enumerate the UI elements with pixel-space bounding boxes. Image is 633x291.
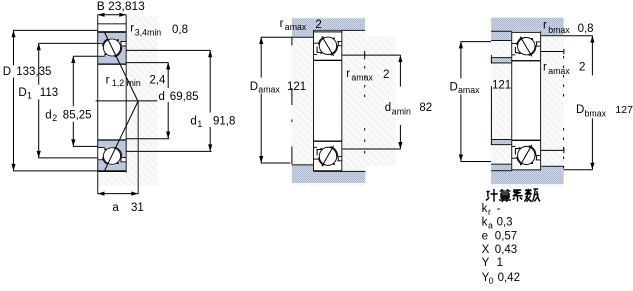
svg-text:B 23,813: B 23,813	[97, 0, 145, 13]
title 计算系数 (drawn as glyph strokes)	[486, 189, 540, 202]
svg-text:1: 1	[497, 257, 503, 269]
dimension d vertical with arrows	[167, 63, 169, 88]
housing shoulder tab bottom-right	[541, 166, 564, 171]
Damax extension top	[461, 41, 492, 43]
svg-text:113: 113	[40, 87, 58, 99]
ra level line bottom with tick	[541, 149, 564, 151]
svg-text:a: a	[488, 221, 493, 231]
dimension damin	[399, 55, 401, 86]
outer ring OD thick line bottom	[98, 170, 126, 172]
svg-text:2: 2	[315, 19, 321, 31]
svg-text:0,57: 0,57	[495, 230, 517, 242]
housing shoulder tab top-left	[491, 31, 512, 40]
bearing interior white	[511, 31, 541, 170]
housing bore edge line bottom-left	[491, 169, 512, 172]
svg-text:d: d	[190, 116, 196, 128]
d2 extension line top	[73, 55, 97, 57]
bearing bottom half-section	[512, 140, 540, 171]
housing band top	[292, 18, 365, 30]
svg-text:amax: amax	[458, 85, 480, 95]
dimension a line	[98, 193, 138, 195]
housing seat edge line bottom	[313, 170, 365, 173]
dimension Damax	[460, 42, 462, 79]
svg-text:D: D	[576, 104, 584, 116]
svg-text:Y: Y	[482, 257, 490, 269]
D1 extension line top	[38, 42, 97, 44]
dimension Damax	[260, 37, 262, 77]
svg-text:D: D	[3, 66, 11, 78]
housing shoulder top edge bottom	[292, 163, 314, 166]
svg-text:d: d	[159, 91, 165, 103]
spacer strip top-left	[491, 58, 511, 63]
bearing bottom half-section	[313, 141, 341, 172]
bearing interior white	[313, 31, 342, 171]
d extension line bottom	[126, 138, 169, 140]
Damax extension top	[261, 36, 292, 38]
d1 extension line top	[126, 49, 210, 51]
Damax extension bottom	[461, 161, 492, 163]
a extension line right	[137, 101, 140, 194]
svg-text:r: r	[280, 18, 284, 30]
dimension D1	[38, 43, 40, 84]
dimension d2	[72, 56, 74, 106]
dimension D: vertical line with arrows	[13, 30, 15, 65]
svg-text:amin: amin	[392, 107, 411, 117]
d extension line top	[126, 62, 168, 64]
svg-text:r: r	[543, 61, 547, 73]
D extension line bottom	[13, 170, 97, 172]
svg-text:r: r	[488, 207, 491, 217]
svg-text:31: 31	[131, 202, 144, 214]
bearing right face line	[340, 31, 343, 172]
housing shoulder tab bottom-left	[292, 165, 314, 172]
Damax extension bottom	[261, 162, 290, 164]
bearing left face line	[96, 14, 99, 194]
left shoulder bottom edge	[491, 39, 512, 42]
bearing interior white	[97, 15, 126, 172]
housing band bottom	[491, 171, 563, 184]
d2 extension line bottom	[73, 145, 97, 147]
svg-text:2: 2	[52, 113, 57, 123]
svg-text:85,25: 85,25	[63, 110, 92, 122]
svg-text:bmax: bmax	[548, 25, 570, 35]
svg-text:2,4: 2,4	[149, 75, 166, 87]
contact angle line top	[105, 33, 138, 102]
bearing right face line	[539, 31, 542, 170]
glyph xi	[513, 190, 523, 202]
svg-text:133,35: 133,35	[16, 66, 51, 78]
bearing left face line	[312, 31, 315, 172]
svg-text:1: 1	[27, 90, 32, 100]
left shoulder top edge bottom	[491, 163, 512, 166]
svg-text:127: 127	[615, 104, 633, 116]
svg-text:D: D	[18, 87, 26, 99]
contact angle line bottom	[105, 101, 138, 170]
svg-text:amax: amax	[351, 72, 373, 82]
bearing right face line	[125, 14, 128, 172]
housing shoulder step	[312, 31, 315, 38]
bearing bottom half-section	[98, 139, 126, 170]
Dbmax extension bottom	[564, 169, 593, 171]
housing shoulder bottom edge	[292, 36, 314, 39]
dimension d1 vertical with arrows	[209, 50, 211, 112]
d1 extension line bottom	[126, 150, 211, 152]
spacer edge vertical line	[490, 55, 492, 63]
housing edge line left (dash-dot)	[291, 38, 293, 46]
svg-text:k: k	[482, 217, 488, 229]
svg-text:r: r	[130, 23, 134, 35]
housing shoulder tab top-left	[292, 31, 314, 38]
outer ring OD thick line top	[98, 31, 126, 33]
svg-text:D: D	[250, 81, 258, 93]
svg-text:1: 1	[197, 119, 202, 129]
glyph suan	[499, 189, 511, 202]
damin extension bottom	[342, 148, 400, 150]
D extension line top	[13, 29, 97, 31]
housing bore edge line	[313, 29, 365, 32]
d leader line	[96, 100, 158, 102]
svg-text:82: 82	[419, 102, 432, 114]
svg-text:91,8: 91,8	[213, 116, 235, 128]
svg-text:0,8: 0,8	[578, 23, 594, 35]
bearing top face line	[97, 22, 126, 25]
svg-text:69,85: 69,85	[170, 91, 199, 103]
housing edge line right (dash-dot)	[364, 51, 366, 60]
svg-text:0,8: 0,8	[172, 24, 188, 36]
right shoulder bottom edge	[540, 34, 563, 37]
svg-text:2: 2	[579, 61, 585, 73]
svg-text:0,42: 0,42	[498, 272, 520, 284]
Dbmax extension top	[564, 35, 593, 37]
spacer strip bottom-left	[491, 140, 511, 145]
glyph ji	[486, 189, 498, 202]
svg-text:k: k	[482, 203, 488, 215]
bearing left face line	[510, 31, 513, 170]
svg-text:amax: amax	[548, 66, 570, 76]
svg-text:r: r	[543, 20, 547, 32]
housing bore edge line top-left	[491, 30, 512, 33]
bearing top half-section	[98, 33, 126, 65]
housing step bottom	[312, 165, 315, 172]
bearing top half-section	[313, 31, 341, 61]
svg-text:bmax: bmax	[585, 108, 607, 118]
svg-text:0,43: 0,43	[495, 244, 517, 256]
svg-text:-: -	[497, 203, 501, 215]
svg-text:D: D	[450, 81, 458, 93]
housing band top	[491, 18, 563, 31]
glyph shu	[524, 189, 540, 202]
svg-text:d: d	[45, 110, 51, 122]
svg-text:amax: amax	[258, 85, 280, 95]
svg-text:121: 121	[492, 79, 511, 91]
housing shoulder tab bottom-left	[491, 164, 512, 170]
ra level line top with tick	[541, 51, 564, 53]
svg-text:121: 121	[287, 81, 306, 93]
svg-text:e: e	[482, 230, 488, 242]
svg-text:r: r	[106, 74, 110, 86]
D1 extension line bottom	[38, 157, 97, 159]
dimension Dbmax	[591, 36, 593, 76]
housing shoulder tab top-right	[541, 31, 564, 36]
svg-text:0,3: 0,3	[497, 217, 513, 229]
svg-text:r: r	[346, 68, 350, 80]
svg-text:d: d	[385, 102, 391, 114]
svg-text:1,2 min: 1,2 min	[112, 78, 141, 88]
housing edge line right (dash-dot)	[563, 56, 565, 100]
svg-text:a: a	[112, 202, 119, 214]
svg-text:amax: amax	[285, 22, 307, 32]
right shoulder top edge bottom	[540, 165, 563, 168]
figure background hatching	[97, 16, 158, 186]
bearing top half-section	[512, 32, 540, 62]
svg-text:X: X	[482, 244, 490, 256]
svg-text:2: 2	[383, 69, 389, 81]
housing band bottom	[292, 171, 366, 183]
dimension line B	[98, 14, 126, 16]
damin extension top	[342, 54, 400, 56]
svg-text:3,4min: 3,4min	[135, 27, 162, 37]
svg-text:0: 0	[489, 276, 494, 286]
